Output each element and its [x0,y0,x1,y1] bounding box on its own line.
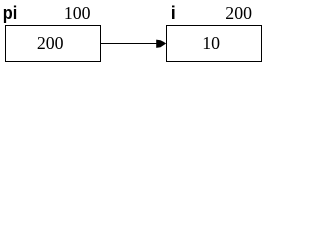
svg-text:200: 200 [225,3,252,23]
background [0,0,265,64]
wire: arrow shaft from box pi to box i [101,43,159,45]
svg-text:200: 200 [37,33,64,53]
box pi [6,26,101,62]
arrowhead at box i [156,40,166,48]
pointer diagram: variable pi at address 100 points to variable i at address 200 [0,0,265,64]
svg-text:100: 100 [64,3,91,23]
svg-text:pi: pi [3,3,17,23]
svg-text:10: 10 [202,33,220,53]
svg-text:i: i [171,3,176,23]
box i [167,26,262,62]
